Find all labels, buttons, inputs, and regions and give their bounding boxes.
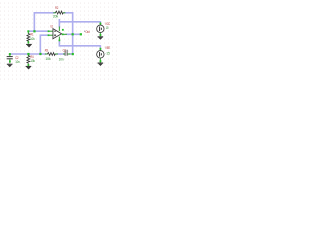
svg-text:10n: 10n bbox=[59, 56, 64, 61]
svg-text:20k: 20k bbox=[53, 14, 58, 19]
svg-text:VEE: VEE bbox=[105, 45, 110, 50]
svg-text:10k: 10k bbox=[30, 58, 35, 63]
svg-text:Out: Out bbox=[85, 29, 90, 34]
svg-text:-15: -15 bbox=[105, 50, 110, 55]
svg-text:10n: 10n bbox=[15, 59, 19, 64]
svg-text:10k: 10k bbox=[45, 56, 50, 61]
svg-text:10k: 10k bbox=[30, 36, 35, 41]
